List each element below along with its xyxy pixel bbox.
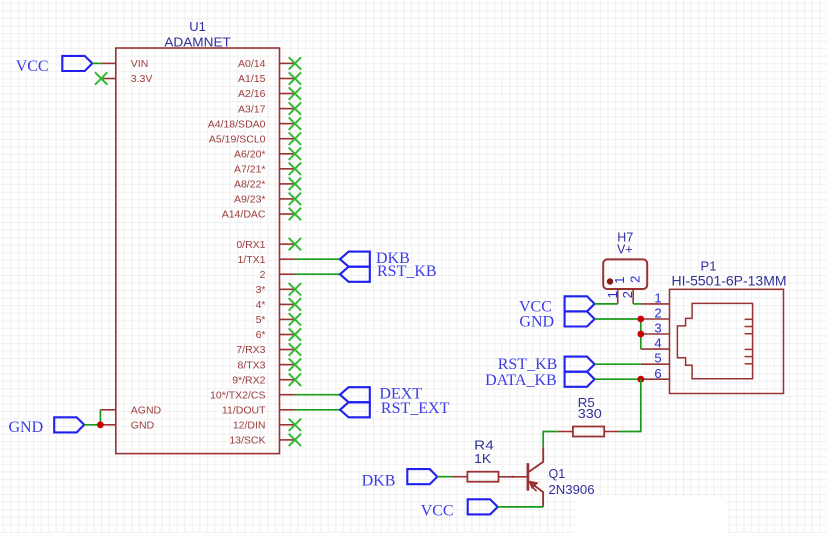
svg-text:RST_EXT: RST_EXT: [381, 400, 450, 417]
resistor R4: [467, 472, 498, 482]
svg-text:2N3906: 2N3906: [549, 483, 595, 497]
Q1 emitter arrow (PNP): [529, 481, 538, 489]
no-connect X on pin 9*/RX2: [289, 374, 301, 386]
svg-text:1: 1: [654, 290, 661, 305]
svg-text:8/TX3: 8/TX3: [237, 359, 265, 371]
svg-text:R4: R4: [474, 439, 494, 453]
net DKB flag: [340, 252, 370, 267]
svg-text:1K: 1K: [474, 452, 492, 466]
no-connect X on pin 4*: [289, 298, 301, 310]
svg-text:P1: P1: [701, 259, 717, 274]
U1 right pin 13/SCK: [280, 439, 295, 441]
svg-text:12/DIN: 12/DIN: [233, 420, 266, 432]
Q1 emitter arrow barb line: [533, 488, 537, 492]
svg-text:A14/DAC: A14/DAC: [222, 209, 266, 221]
connector H7 body: [603, 259, 647, 289]
svg-text:A0/14: A0/14: [238, 58, 266, 70]
no-connect X on pin A1/15: [289, 72, 301, 84]
U1 right pin 1/TX1: [280, 258, 295, 260]
svg-text:4: 4: [654, 336, 661, 351]
wire R5 to Q1 collector: [543, 432, 558, 448]
svg-text:7/RX3: 7/RX3: [236, 344, 265, 356]
U1 right pin 9*/RX2: [280, 379, 295, 381]
U1 right pin 10*/TX2/CS: [280, 394, 295, 396]
U1 right pin A0/14: [280, 62, 295, 64]
svg-text:4*: 4*: [256, 299, 266, 311]
no-connect X on pin A14/DAC: [289, 208, 301, 220]
net DKB flag bottom: [407, 469, 437, 484]
U1 right pin 12/DIN: [280, 424, 295, 426]
svg-text:DKB: DKB: [362, 472, 396, 489]
svg-text:GND: GND: [9, 419, 44, 436]
wire 11/DOUT to RST_EXT: [295, 409, 340, 411]
transistor Q1 collector: [529, 447, 543, 472]
U1 right pin 0/RX1: [280, 243, 295, 245]
no-connect X on pin A5/19/SCL0: [289, 133, 301, 145]
wire GND up to AGND: [99, 410, 101, 425]
net RST_KB flag at P1: [565, 357, 595, 372]
U1 right pin 8/TX3: [280, 364, 295, 366]
P1 pin 4: [641, 348, 670, 350]
net RST_EXT flag: [340, 402, 370, 417]
svg-text:A1/15: A1/15: [238, 73, 266, 85]
svg-text:0/RX1: 0/RX1: [236, 239, 265, 251]
svg-text:AGND: AGND: [131, 405, 162, 417]
P1 pin 3: [641, 333, 670, 335]
U1 left pin 3.3V: [101, 78, 116, 80]
wire H7 pin2 to P1 pin1: [633, 303, 641, 305]
svg-text:11/DOUT: 11/DOUT: [222, 405, 266, 417]
svg-text:3.3V: 3.3V: [131, 73, 153, 85]
svg-text:GND: GND: [519, 314, 554, 331]
svg-text:A9/23*: A9/23*: [234, 194, 266, 206]
svg-text:2: 2: [620, 291, 635, 298]
U1 right pin 5*: [280, 318, 295, 320]
R4 left lead: [453, 476, 468, 478]
svg-text:DATA_KB: DATA_KB: [485, 372, 557, 389]
svg-text:A4/18/SDA0: A4/18/SDA0: [208, 118, 266, 130]
wire DATA_KB to P1 pin6: [595, 378, 641, 380]
net RST_KB flag: [340, 267, 370, 282]
U1 left pin VIN: [101, 62, 116, 64]
svg-text:ADAMNET: ADAMNET: [164, 34, 231, 49]
svg-text:HI-5501-6P-13MM: HI-5501-6P-13MM: [672, 274, 787, 289]
svg-text:3*: 3*: [256, 284, 266, 296]
svg-text:A2/16: A2/16: [238, 88, 266, 100]
U1 left pin AGND: [100, 409, 115, 411]
svg-text:9*/RX2: 9*/RX2: [232, 374, 265, 386]
svg-text:V+: V+: [617, 242, 633, 256]
wire VCC to Q1 emitter: [498, 506, 544, 508]
svg-text:10*/TX2/CS: 10*/TX2/CS: [210, 389, 265, 401]
P1 pin 6: [641, 378, 670, 380]
svg-text:Q1: Q1: [549, 467, 566, 481]
H7 pin1 mark dot: [607, 278, 613, 284]
P1 jack outline: [677, 303, 752, 378]
svg-text:VIN: VIN: [131, 58, 149, 70]
P1 pin 1: [641, 303, 670, 305]
wire 1/TX1 to DKB: [295, 258, 340, 260]
U1 right pin A7/21*: [280, 168, 295, 170]
junction at P1 pin3: [637, 331, 644, 338]
net GND flag at P1: [565, 311, 595, 326]
no-connect X on pin 6*: [289, 328, 301, 340]
svg-text:6*: 6*: [256, 329, 266, 341]
wire 2 to RST_KB: [295, 273, 340, 275]
no-connect X on pin 8/TX3: [289, 358, 301, 370]
IC U1 body: [116, 48, 280, 454]
H7 pin 2 lead: [632, 289, 634, 304]
wire DKB to R4: [437, 476, 452, 478]
svg-text:1/TX1: 1/TX1: [237, 254, 265, 266]
U1 right pin 4*: [280, 303, 295, 305]
no-connect X on pin A3/17: [289, 102, 301, 114]
wire 10*/TX2/CS to DEXT: [295, 394, 340, 396]
net VCC flag at P1: [565, 296, 595, 311]
R5 right lead: [604, 431, 619, 433]
net VCC flag bottom: [468, 499, 498, 514]
net DEXT flag: [340, 387, 370, 402]
no-connect X on pin 3*: [289, 283, 301, 295]
svg-text:A5/19/SCL0: A5/19/SCL0: [209, 133, 266, 145]
junction GND/AGND: [97, 421, 104, 428]
connector P1 body: [670, 289, 784, 393]
no-connect X on pin A2/16: [289, 87, 301, 99]
U1 right pin 11/DOUT: [280, 409, 295, 411]
no-connect X on pin 3.3V: [95, 72, 107, 84]
svg-text:A6/20*: A6/20*: [234, 149, 266, 161]
no-connect X on pin A0/14: [289, 57, 301, 69]
no-connect X on pin A9/23*: [289, 193, 301, 205]
svg-text:1: 1: [605, 291, 620, 298]
svg-text:VCC: VCC: [421, 503, 454, 520]
U1 right pin A5/19/SCL0: [280, 138, 295, 140]
net GND: flag bottom-left: [54, 417, 84, 432]
U1 right pin A3/17: [280, 108, 295, 110]
U1 right pin A6/20*: [280, 153, 295, 155]
svg-text:U1: U1: [189, 19, 206, 34]
Q1 base lead: [499, 476, 528, 478]
wire GND flag to GND pin: [84, 424, 100, 426]
wire pin6 down to R5: [619, 379, 640, 431]
net VCC: flag top-left: [62, 56, 92, 71]
svg-text:3: 3: [654, 321, 661, 336]
Q1 emitter: [529, 482, 543, 507]
svg-text:GND: GND: [131, 420, 155, 432]
U1 right pin A8/22*: [280, 183, 295, 185]
no-connect X on pin A4/18/SDA0: [289, 117, 301, 129]
svg-text:13/SCK: 13/SCK: [229, 435, 265, 447]
svg-text:RST_KB: RST_KB: [377, 263, 437, 280]
H7 pin 1 lead: [617, 289, 619, 304]
wire GND bus down to pin4: [640, 319, 642, 349]
svg-text:1: 1: [612, 276, 627, 283]
U1 right pin 7/RX3: [280, 349, 295, 351]
U1 right pin 3*: [280, 288, 295, 290]
svg-text:A3/17: A3/17: [238, 103, 266, 115]
wire VCC to H7 pin1: [595, 303, 618, 305]
svg-text:330: 330: [578, 407, 602, 421]
Q1 base bar: [527, 463, 530, 491]
U1 right pin A9/23*: [280, 198, 295, 200]
no-connect X on pin 13/SCK: [289, 434, 301, 446]
U1 right pin A2/16: [280, 93, 295, 95]
svg-text:A8/22*: A8/22*: [234, 179, 266, 191]
no-connect X on pin 5*: [289, 313, 301, 325]
no-connect X on pin 0/RX1: [289, 238, 301, 250]
svg-text:2: 2: [628, 276, 643, 283]
svg-text:RST_KB: RST_KB: [498, 356, 558, 373]
U1 right pin 2: [280, 273, 295, 275]
svg-text:6: 6: [654, 366, 661, 381]
U1 left pin GND: [100, 424, 115, 426]
U1 right pin 6*: [280, 334, 295, 336]
svg-text:5*: 5*: [256, 314, 266, 326]
no-connect X on pin A8/22*: [289, 178, 301, 190]
svg-text:2: 2: [260, 269, 266, 281]
no-connect X on pin A6/20*: [289, 148, 301, 160]
R5 left lead: [558, 431, 573, 433]
U1 right pin A4/18/SDA0: [280, 123, 295, 125]
U1 right pin A1/15: [280, 78, 295, 80]
svg-text:5: 5: [654, 351, 661, 366]
P1 pin 5: [641, 363, 670, 365]
svg-text:A7/21*: A7/21*: [234, 164, 266, 176]
junction at P1 pin2: [637, 316, 644, 323]
svg-text:VCC: VCC: [16, 58, 49, 75]
no-connect X on pin 7/RX3: [289, 343, 301, 355]
Q1 pin joint dot: [512, 476, 514, 478]
U1 right pin A14/DAC: [280, 213, 295, 215]
P1 pin 2: [641, 318, 670, 320]
blank overlay rectangle: [576, 497, 727, 533]
P1 jack contacts: [745, 319, 753, 364]
wire RST_KB to P1 pin5: [595, 363, 641, 365]
svg-text:2: 2: [654, 306, 661, 321]
junction at P1 pin6: [637, 376, 644, 383]
no-connect X on pin A7/21*: [289, 163, 301, 175]
no-connect X on pin 12/DIN: [289, 419, 301, 431]
wire VCC to VIN: [92, 62, 101, 64]
resistor R5: [573, 427, 604, 437]
net DATA_KB flag at P1: [565, 372, 595, 387]
wire GND to P1 pin2: [595, 318, 641, 320]
